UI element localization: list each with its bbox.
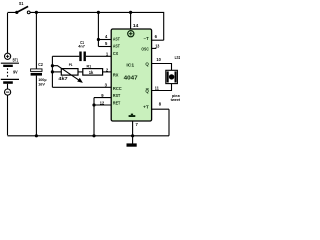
battery plate long 2	[1, 78, 19, 80]
junction node pin4 branch	[97, 38, 100, 41]
wire pin12 stub	[94, 104, 112, 106]
svg-text:RET: RET	[113, 100, 121, 105]
wire pin8 riser	[151, 109, 169, 136]
junction node A P1 left	[51, 70, 54, 73]
svg-text:+T: +T	[143, 105, 149, 110]
svg-text:RX: RX	[113, 72, 119, 77]
wire pin7 drop	[132, 121, 134, 136]
wire pin3 stub	[52, 86, 111, 88]
svg-text:P1: P1	[69, 62, 74, 67]
wire bottom rail	[8, 135, 170, 137]
svg-text:11: 11	[155, 86, 160, 91]
svg-text:S1: S1	[19, 1, 24, 6]
svg-text:AST: AST	[113, 44, 120, 49]
svg-text:BT1: BT1	[13, 57, 19, 62]
capacitor C2	[31, 62, 48, 87]
wire R1 to pin2	[103, 71, 112, 73]
battery plate thick 2	[3, 81, 13, 84]
svg-text:4047: 4047	[124, 76, 138, 82]
pin 14 power symbol	[128, 31, 134, 37]
svg-text:4n7: 4n7	[78, 44, 85, 49]
svg-text:12: 12	[100, 100, 105, 105]
capacitor C1	[78, 40, 86, 61]
resistor R1	[83, 63, 103, 75]
wire pin5 stub	[98, 46, 111, 48]
wire C2 to ground rail	[35, 76, 37, 136]
svg-text:1k: 1k	[89, 70, 94, 75]
svg-text:R1: R1	[87, 63, 92, 68]
svg-text:9V: 9V	[13, 69, 18, 74]
svg-text:AST: AST	[113, 37, 120, 42]
wire battery minus to rail	[7, 95, 9, 135]
potentiometer P1	[52, 62, 83, 83]
IC1 4047 body	[111, 29, 151, 121]
junction node rail / ground	[131, 134, 134, 137]
svg-text:Q: Q	[145, 62, 149, 67]
junction node top rail / pin4-5	[97, 11, 100, 14]
svg-text:16V: 16V	[38, 82, 45, 87]
svg-text:14: 14	[133, 23, 139, 28]
wire pin13 stub	[151, 47, 156, 49]
wire C2 drop	[35, 12, 37, 69]
battery plate thick 1	[3, 65, 13, 67]
svg-text:C2: C2	[38, 62, 43, 67]
wire pin9/12 ground drop	[93, 98, 95, 136]
wire pin4/5 rail	[97, 12, 99, 46]
battery minus terminal	[7, 84, 9, 89]
piezo tweeter LS1	[166, 55, 185, 102]
switch S1	[15, 1, 30, 14]
junction node pin12	[92, 103, 95, 106]
wire pin6 stub	[151, 39, 163, 41]
wire pin10 to tweeter	[151, 64, 171, 71]
wire pin11 to tweeter	[151, 84, 171, 91]
wire pin4 stub	[98, 39, 111, 41]
battery BT1	[1, 53, 19, 95]
junction node top rail / C2	[35, 11, 38, 14]
svg-text:RCC: RCC	[113, 86, 122, 91]
svg-text:tweeter: tweeter	[171, 98, 180, 102]
wire node A vertical	[51, 56, 53, 87]
junction node A wiper	[51, 64, 54, 67]
junction node rail / C2	[35, 134, 38, 137]
wire left rail top	[8, 12, 17, 53]
wire pin9 stub	[94, 97, 112, 99]
ground	[127, 136, 137, 147]
svg-text:10: 10	[156, 57, 161, 62]
svg-text:−T: −T	[144, 36, 150, 41]
wire pin14 drop	[130, 12, 132, 29]
battery plate long 1	[1, 62, 19, 64]
wire P1 to R1	[78, 71, 83, 73]
svg-text:4k7: 4k7	[58, 76, 68, 81]
svg-text:CX: CX	[113, 51, 118, 56]
svg-text:LS1: LS1	[175, 55, 180, 60]
wire P1 left	[52, 71, 61, 73]
svg-text:Q: Q	[145, 89, 149, 94]
svg-text:13: 13	[155, 43, 160, 48]
svg-text:OSC: OSC	[141, 47, 148, 52]
svg-text:RST: RST	[113, 93, 121, 98]
junction node top rail / pin14	[129, 11, 132, 14]
wire top rail	[30, 12, 164, 40]
svg-text:IC1: IC1	[126, 63, 134, 68]
battery cell dots	[7, 68, 9, 78]
wire C1 left	[52, 55, 79, 57]
wire C1 right pin1	[86, 55, 112, 57]
junction node rail / pin9-12	[92, 134, 95, 137]
pin 7 VSS tab	[129, 115, 136, 117]
